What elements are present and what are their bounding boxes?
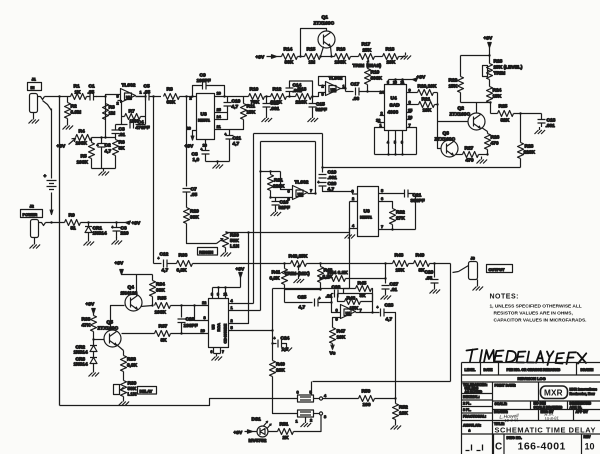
capacitor C24 — [271, 329, 289, 352]
transistor Q5 — [98, 306, 125, 351]
svg-text:82K: 82K — [501, 118, 510, 124]
capacitor C26 — [326, 285, 373, 303]
svg-text:R15: R15 — [307, 47, 316, 53]
resistor R7 — [125, 109, 141, 125]
IC U3 NE571 — [190, 94, 215, 140]
print date cell — [493, 382, 600, 401]
ground R30 — [221, 250, 232, 257]
svg-text:7: 7 — [409, 123, 411, 128]
svg-text:+9V: +9V — [57, 144, 66, 150]
node C19 top — [321, 166, 323, 168]
label DELAY — [138, 387, 157, 395]
battery B1 — [43, 101, 57, 215]
wire R20 R21 join — [438, 93, 442, 149]
resistor R46 — [338, 294, 373, 312]
resistor R9 — [65, 213, 81, 232]
svg-text:Vs: Vs — [330, 351, 336, 357]
svg-text:C10: C10 — [232, 99, 241, 105]
ground C24 — [282, 345, 293, 352]
svg-text:C25: C25 — [298, 295, 307, 301]
svg-text:R24: R24 — [493, 88, 502, 94]
svg-text:100K: 100K — [155, 310, 167, 316]
svg-text:Q5: Q5 — [107, 320, 114, 326]
svg-text:C19: C19 — [328, 170, 337, 176]
capacitor C15 — [309, 97, 328, 116]
node C25 out — [330, 301, 332, 303]
capacitor C7 regen — [183, 97, 198, 199]
svg-text:DS1: DS1 — [252, 417, 262, 423]
svg-text:CD4053BE: CD4053BE — [223, 323, 228, 343]
svg-text:DELAY: DELAY — [140, 389, 153, 394]
capacitor C25 — [285, 295, 332, 311]
svg-text:220: 220 — [121, 231, 129, 237]
node R24 bottom — [489, 101, 491, 103]
node C2 — [100, 136, 102, 138]
revision table frame — [462, 363, 600, 454]
jack J3 — [453, 256, 478, 284]
node Q1 base — [319, 55, 321, 57]
drawn row — [493, 410, 600, 424]
svg-text:6: 6 — [401, 141, 403, 145]
resistor R14 — [282, 47, 298, 66]
svg-text:DWG NO.: DWG NO. — [507, 436, 522, 440]
svg-text:7: 7 — [222, 350, 224, 354]
capacitor C28 — [377, 303, 397, 323]
node R3 bottom — [104, 136, 106, 138]
svg-text:R21: R21 — [422, 97, 431, 103]
pin 16 capacitor C8 — [192, 140, 210, 164]
svg-text:4: 4 — [387, 141, 389, 145]
svg-text:C27: C27 — [390, 282, 399, 288]
svg-text:2N4126: 2N4126 — [121, 291, 138, 297]
svg-text:2K: 2K — [283, 435, 290, 441]
ground C15 — [308, 115, 319, 122]
svg-text:.01: .01 — [391, 287, 398, 293]
pins 8 9 11 U5 — [211, 278, 241, 299]
drawing number row — [494, 434, 595, 454]
svg-text:+: + — [318, 181, 320, 185]
capacitor C23 — [178, 306, 198, 334]
svg-text:.01: .01 — [326, 294, 333, 300]
svg-text:.001: .001 — [546, 123, 556, 129]
svg-text:TRIM: TRIM — [494, 71, 506, 77]
jack J1 — [28, 77, 45, 117]
svg-text:ZTX109C: ZTX109C — [314, 21, 335, 27]
supply +9V U4 — [413, 75, 426, 82]
svg-text:Q3: Q3 — [443, 131, 450, 137]
resistor R2 — [65, 97, 82, 123]
pins 6 7 ground U5 — [211, 348, 225, 361]
svg-text:C3: C3 — [119, 127, 125, 133]
wire R22 top — [461, 55, 490, 57]
wire mix bus — [307, 263, 414, 265]
svg-text:APP BY: APP BY — [576, 410, 589, 414]
resistor R6 — [113, 140, 126, 169]
node R41 top — [283, 262, 285, 264]
pin 14 U3 — [215, 114, 228, 120]
svg-text:R34: R34 — [156, 282, 165, 288]
svg-text:+: + — [201, 148, 203, 152]
resistor R12 — [271, 87, 296, 106]
pin 7 U4 — [407, 123, 417, 155]
ground C29 — [430, 287, 441, 294]
svg-text:C24: C24 — [281, 336, 290, 342]
svg-text:IN: IN — [31, 85, 35, 90]
node U3 out — [223, 95, 225, 97]
ground R42 — [294, 276, 305, 283]
svg-text:7: 7 — [360, 308, 362, 313]
svg-text:100K: 100K — [77, 160, 89, 166]
pin 9 resistor R20 — [407, 84, 438, 96]
node R43 top — [319, 262, 321, 264]
svg-text:CAPACITOR VALUES IN MICROFA: CAPACITOR VALUES IN MICROFARADS. — [494, 318, 587, 324]
wire S1a to R50 — [323, 398, 359, 400]
svg-text:220K: 220K — [273, 184, 285, 190]
wire C28 down — [395, 313, 397, 399]
IC U4 SAD4096 — [380, 85, 407, 131]
svg-text:6,8K: 6,8K — [177, 268, 188, 274]
svg-text:SAD: SAD — [390, 103, 401, 109]
pin 1 U4 — [375, 123, 385, 155]
diode CR2 — [74, 340, 98, 356]
svg-text:+: + — [97, 144, 99, 148]
capacitor C29 — [425, 264, 439, 287]
svg-text:30K: 30K — [285, 60, 294, 66]
svg-text:C8: C8 — [192, 152, 198, 158]
wire regen to pin2 — [273, 233, 350, 339]
svg-text:+9V: +9V — [417, 75, 426, 81]
capacitor C2 — [97, 138, 112, 169]
wire collector bus — [461, 103, 491, 114]
svg-text:R51: R51 — [280, 422, 289, 428]
resistor R37 — [155, 324, 171, 344]
svg-text:R17: R17 — [362, 42, 371, 48]
svg-text:R27: R27 — [465, 146, 474, 152]
svg-text:MV5752: MV5752 — [249, 438, 267, 444]
resistor R49 — [414, 253, 451, 274]
ground J2 — [30, 242, 41, 249]
supply +9V LED — [234, 430, 258, 436]
node R43 R44 — [319, 277, 321, 279]
tolerances column — [462, 382, 600, 454]
svg-text:Q2: Q2 — [458, 106, 465, 112]
svg-text:R18: R18 — [386, 47, 395, 53]
svg-text:300PF: 300PF — [411, 198, 425, 204]
pin 4 ground U6 — [345, 223, 358, 239]
svg-text:ZTX109C: ZTX109C — [98, 326, 119, 332]
svg-text:220K: 220K — [296, 100, 308, 106]
revision header row — [465, 363, 594, 376]
node regen tap — [185, 95, 187, 97]
svg-text:470: 470 — [491, 141, 499, 147]
svg-text:C7: C7 — [191, 187, 197, 193]
capacitor C19 — [319, 134, 338, 182]
svg-text:100: 100 — [363, 402, 371, 408]
capacitor C14 — [286, 81, 313, 97]
node U1 out — [144, 95, 146, 97]
capacitor C10 — [224, 97, 241, 121]
resistor R1 — [71, 84, 87, 100]
svg-text:7: 7 — [310, 188, 312, 193]
svg-text:.01: .01 — [119, 132, 126, 138]
svg-text:27K: 27K — [396, 216, 405, 222]
node U2a out — [344, 87, 346, 89]
resistor R4 — [76, 129, 92, 147]
svg-text:+: + — [112, 226, 114, 230]
svg-text:+: + — [158, 257, 160, 261]
node R21 — [436, 103, 438, 105]
ground S1b — [301, 420, 312, 427]
svg-text:1N914: 1N914 — [74, 350, 88, 356]
wire S1a pin5 up — [311, 382, 313, 396]
resistor R10 — [249, 87, 271, 106]
capacitor C5 — [136, 84, 162, 101]
supply +9V driver — [484, 36, 493, 64]
resistor R45 — [344, 281, 373, 300]
ground input stage — [99, 169, 110, 176]
ground CR1 — [84, 239, 95, 246]
svg-text:9: 9 — [217, 293, 219, 297]
svg-text:.05: .05 — [191, 192, 198, 198]
svg-text:20K: 20K — [387, 60, 396, 66]
svg-text:C16: C16 — [280, 200, 289, 206]
ground J3 — [473, 284, 484, 291]
svg-text:3K: 3K — [119, 146, 126, 152]
wire R41 mix join — [285, 289, 321, 291]
svg-text:C1: C1 — [89, 84, 95, 90]
svg-text:3K: 3K — [161, 338, 168, 344]
node Q4 emitter — [151, 304, 153, 306]
resistor R36 — [177, 253, 291, 274]
node C8 bus — [216, 160, 218, 162]
resistor R16 — [335, 47, 359, 66]
node C13 — [265, 95, 267, 97]
svg-text:10K: 10K — [423, 108, 432, 114]
svg-text:C11: C11 — [233, 136, 242, 142]
svg-text:ARE IN.: ARE IN. — [570, 406, 582, 410]
svg-text:R19: R19 — [371, 70, 380, 76]
svg-text:R5: R5 — [81, 154, 87, 160]
svg-text:10: 10 — [585, 442, 595, 452]
resistor R8 — [164, 87, 197, 106]
wire feedback loop — [118, 97, 146, 125]
logo MXR — [541, 386, 598, 399]
node R50 R52 — [394, 397, 396, 399]
svg-text:Q1: Q1 — [322, 15, 329, 21]
svg-text:ANGULAR:: ANGULAR: — [463, 424, 481, 428]
svg-text:.001: .001 — [328, 175, 338, 181]
svg-text:R1: R1 — [74, 84, 80, 90]
svg-text:1M: 1M — [309, 60, 316, 66]
svg-text:15K: 15K — [247, 110, 256, 116]
svg-text:R37: R37 — [159, 324, 168, 330]
svg-text:7: 7 — [381, 224, 383, 229]
svg-text:R12: R12 — [273, 87, 282, 93]
svg-text:TRIM: TRIM — [353, 63, 365, 69]
pin 11 U3 — [215, 124, 230, 130]
pins 4 5 6 U4 — [375, 131, 417, 156]
svg-text:R8: R8 — [167, 87, 173, 93]
diode CR3 — [74, 352, 98, 370]
capacitor C16 — [272, 198, 291, 212]
wire U2b input — [261, 172, 293, 198]
svg-text:R23: R23 — [494, 59, 503, 65]
capacitor C1 — [87, 84, 98, 101]
op-amp U1 — [117, 83, 143, 106]
svg-text:3,9K: 3,9K — [127, 363, 138, 369]
svg-text:68K: 68K — [167, 100, 176, 106]
svg-text:6: 6 — [211, 350, 213, 354]
label REGEN — [198, 248, 218, 256]
capacitor C6 — [112, 223, 129, 239]
svg-text:U4: U4 — [391, 96, 397, 102]
supply +9V Q4 — [115, 261, 153, 275]
svg-text:ZTX109C: ZTX109C — [435, 137, 456, 143]
svg-text:1K: 1K — [75, 90, 82, 96]
svg-text:.001: .001 — [270, 106, 280, 112]
svg-text:10K: 10K — [399, 411, 408, 417]
node R22 top — [488, 54, 490, 56]
resistor R27 — [456, 146, 488, 164]
resistor R31 — [268, 172, 286, 198]
handwritten title TIME DELAY EFX — [467, 349, 587, 365]
svg-text:C18: C18 — [547, 118, 556, 124]
svg-text:C26: C26 — [332, 285, 341, 291]
wire stage gnd bus — [92, 168, 116, 170]
title row — [494, 422, 596, 435]
svg-text:+9V: +9V — [484, 36, 493, 42]
svg-text:LEVEL: LEVEL — [465, 368, 476, 372]
resistor R25 — [491, 104, 542, 124]
node C6 — [115, 221, 117, 223]
capacitor C11 — [225, 130, 242, 162]
resistor R13 — [296, 87, 312, 106]
svg-text:4,7: 4,7 — [386, 317, 393, 323]
resistor R35 — [155, 296, 209, 316]
ground C6 — [112, 238, 123, 245]
node input — [58, 95, 60, 97]
svg-text:REV: REV — [584, 435, 592, 439]
svg-text:R13: R13 — [298, 87, 307, 93]
svg-text:51: 51 — [71, 226, 77, 232]
svg-text:R36: R36 — [179, 253, 188, 259]
svg-text:10: 10 — [393, 81, 397, 85]
svg-text:3.9M: 3.9M — [71, 110, 82, 116]
svg-text:R44 6.8K: R44 6.8K — [328, 270, 349, 276]
switch S1b — [296, 410, 328, 424]
svg-text:130K: 130K — [335, 60, 347, 66]
capacitor C17 — [346, 82, 385, 103]
svg-text:300K: 300K — [371, 76, 383, 82]
svg-text:25K: 25K — [363, 48, 372, 54]
svg-text:10K: 10K — [337, 335, 346, 341]
wire C3 branch — [116, 125, 122, 130]
wire R4 bus — [92, 137, 116, 139]
wire dry tap vertical — [153, 97, 155, 264]
svg-text:TL062: TL062 — [295, 180, 309, 186]
svg-text:ZTX109C: ZTX109C — [450, 112, 471, 118]
svg-text:R31: R31 — [274, 178, 283, 184]
capacitor C12 — [154, 252, 177, 274]
pin 1 U5 — [229, 305, 261, 311]
svg-text:1,0: 1,0 — [193, 157, 200, 163]
capacitor C13 — [263, 97, 280, 116]
svg-text:3: 3 — [387, 81, 389, 85]
svg-text:220K: 220K — [524, 150, 536, 156]
svg-text:MXR: MXR — [544, 389, 563, 398]
node route B tap — [259, 170, 261, 172]
node C15 — [311, 95, 313, 97]
svg-text:REVISION LOG: REVISION LOG — [518, 376, 546, 381]
svg-text:C4: C4 — [138, 120, 144, 126]
op-amp U1b — [336, 305, 362, 322]
supply +9V power out — [126, 221, 141, 227]
svg-text:R41: R41 — [272, 270, 281, 276]
wire output riser — [313, 264, 451, 382]
svg-text:PEN NO. OR CHANGE REMARKS: PEN NO. OR CHANGE REMARKS — [507, 368, 561, 372]
node pin3 riser — [193, 304, 195, 306]
svg-text:20K: 20K — [276, 368, 285, 374]
svg-text:+9V: +9V — [234, 430, 243, 436]
svg-text:+: + — [319, 297, 321, 301]
svg-text:R40: R40 — [276, 362, 285, 368]
svg-text:1, UNLESS SPECIFIED OTHERWIS: 1, UNLESS SPECIFIED OTHERWISE ALL — [490, 304, 582, 310]
svg-text:4,7: 4,7 — [105, 149, 112, 155]
svg-text:82PF: 82PF — [279, 205, 291, 211]
pin 5 U5 — [229, 325, 273, 331]
svg-text:15K: 15K — [396, 268, 405, 274]
svg-text:470PF: 470PF — [136, 125, 150, 131]
resistor R43 — [318, 264, 334, 290]
node R25 out — [519, 112, 521, 114]
resistor R33 — [82, 314, 97, 340]
svg-text:C9: C9 — [200, 73, 206, 79]
transistor Q2 — [450, 103, 488, 132]
capacitor C3 — [112, 127, 126, 140]
resistor R18 — [383, 47, 406, 66]
svg-text:.06: .06 — [353, 96, 360, 102]
svg-text:RESISTOR VALUES ARE IN OHM: RESISTOR VALUES ARE IN OHMS, — [494, 311, 574, 317]
resistor R3 — [103, 104, 116, 120]
node dry tap — [152, 95, 154, 97]
wire S1b pin3 — [294, 415, 322, 431]
svg-text:50K: 50K — [230, 238, 239, 244]
svg-text:SCALE:: SCALE: — [495, 402, 508, 406]
LED DS1 — [249, 417, 278, 445]
resistor R28 — [518, 114, 536, 168]
svg-text:OUTPUT: OUTPUT — [489, 267, 506, 272]
wire U1b pin6 — [332, 303, 341, 313]
svg-text:R9: R9 — [69, 213, 75, 219]
svg-text:11: 11 — [224, 293, 228, 297]
svg-text:+9V: +9V — [256, 55, 265, 61]
pin 7 U6 — [379, 224, 416, 231]
supply +9V U5 — [236, 267, 245, 278]
svg-text:+9V: +9V — [132, 221, 141, 227]
wire pin3 U5 — [195, 306, 209, 321]
resistor R51 — [278, 422, 294, 442]
svg-text:100K: 100K — [76, 141, 88, 147]
svg-text:POWER: POWER — [23, 212, 38, 217]
svg-text:470: 470 — [466, 158, 474, 164]
node R19 bottom — [366, 90, 368, 92]
svg-text:R46: R46 — [347, 296, 356, 302]
resistor R24 — [487, 87, 502, 103]
svg-text:+9V: +9V — [86, 302, 95, 308]
svg-text:+9V: +9V — [115, 261, 124, 267]
resistor R26 — [485, 132, 500, 155]
resistor R41 — [270, 264, 288, 303]
